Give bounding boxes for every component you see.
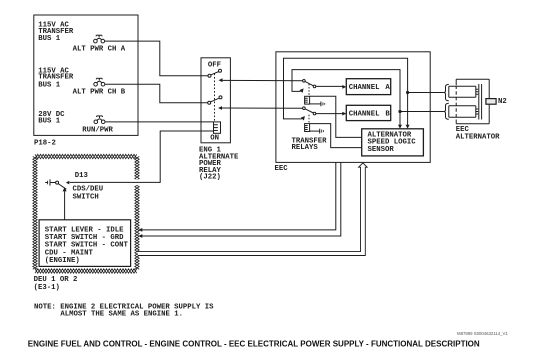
svg-text:D13: D13 bbox=[75, 172, 89, 180]
svg-text:ALT PWR CH B: ALT PWR CH B bbox=[73, 89, 126, 97]
svg-text:P18-2: P18-2 bbox=[34, 140, 56, 148]
svg-text:(J22): (J22) bbox=[199, 174, 221, 182]
svg-text:B: B bbox=[385, 111, 390, 119]
svg-text:ENGINE FUEL AND CONTROL - ENGI: ENGINE FUEL AND CONTROL - ENGINE CONTROL… bbox=[28, 340, 480, 349]
svg-text:(E3-1): (E3-1) bbox=[34, 284, 60, 292]
svg-text:ALT PWR CH A: ALT PWR CH A bbox=[73, 46, 126, 54]
svg-text:BUS 1: BUS 1 bbox=[38, 118, 61, 126]
svg-text:CHANNEL: CHANNEL bbox=[349, 111, 380, 119]
svg-text:BUS 1: BUS 1 bbox=[38, 81, 61, 89]
svg-text:ON: ON bbox=[210, 135, 219, 143]
svg-text:N2: N2 bbox=[498, 98, 507, 106]
svg-text:SWITCH: SWITCH bbox=[73, 193, 99, 201]
svg-text:(ENGINE): (ENGINE) bbox=[45, 257, 80, 265]
svg-text:SENSOR: SENSOR bbox=[368, 146, 395, 154]
svg-text:M87899 S0004632114_V1: M87899 S0004632114_V1 bbox=[457, 331, 508, 336]
svg-text:OFF: OFF bbox=[208, 62, 221, 70]
svg-text:BUS 1: BUS 1 bbox=[38, 35, 61, 43]
svg-text:RUN/PWR: RUN/PWR bbox=[82, 126, 113, 134]
svg-text:CHANNEL: CHANNEL bbox=[349, 84, 380, 92]
svg-text:DEU 1 OR 2: DEU 1 OR 2 bbox=[34, 276, 78, 284]
svg-text:ALTERNATOR: ALTERNATOR bbox=[456, 133, 500, 141]
svg-text:RELAYS: RELAYS bbox=[292, 144, 319, 152]
svg-text:A: A bbox=[385, 84, 390, 92]
svg-text:ALMOST THE SAME AS ENGINE 1.: ALMOST THE SAME AS ENGINE 1. bbox=[60, 311, 183, 319]
svg-text:EEC: EEC bbox=[275, 165, 289, 173]
